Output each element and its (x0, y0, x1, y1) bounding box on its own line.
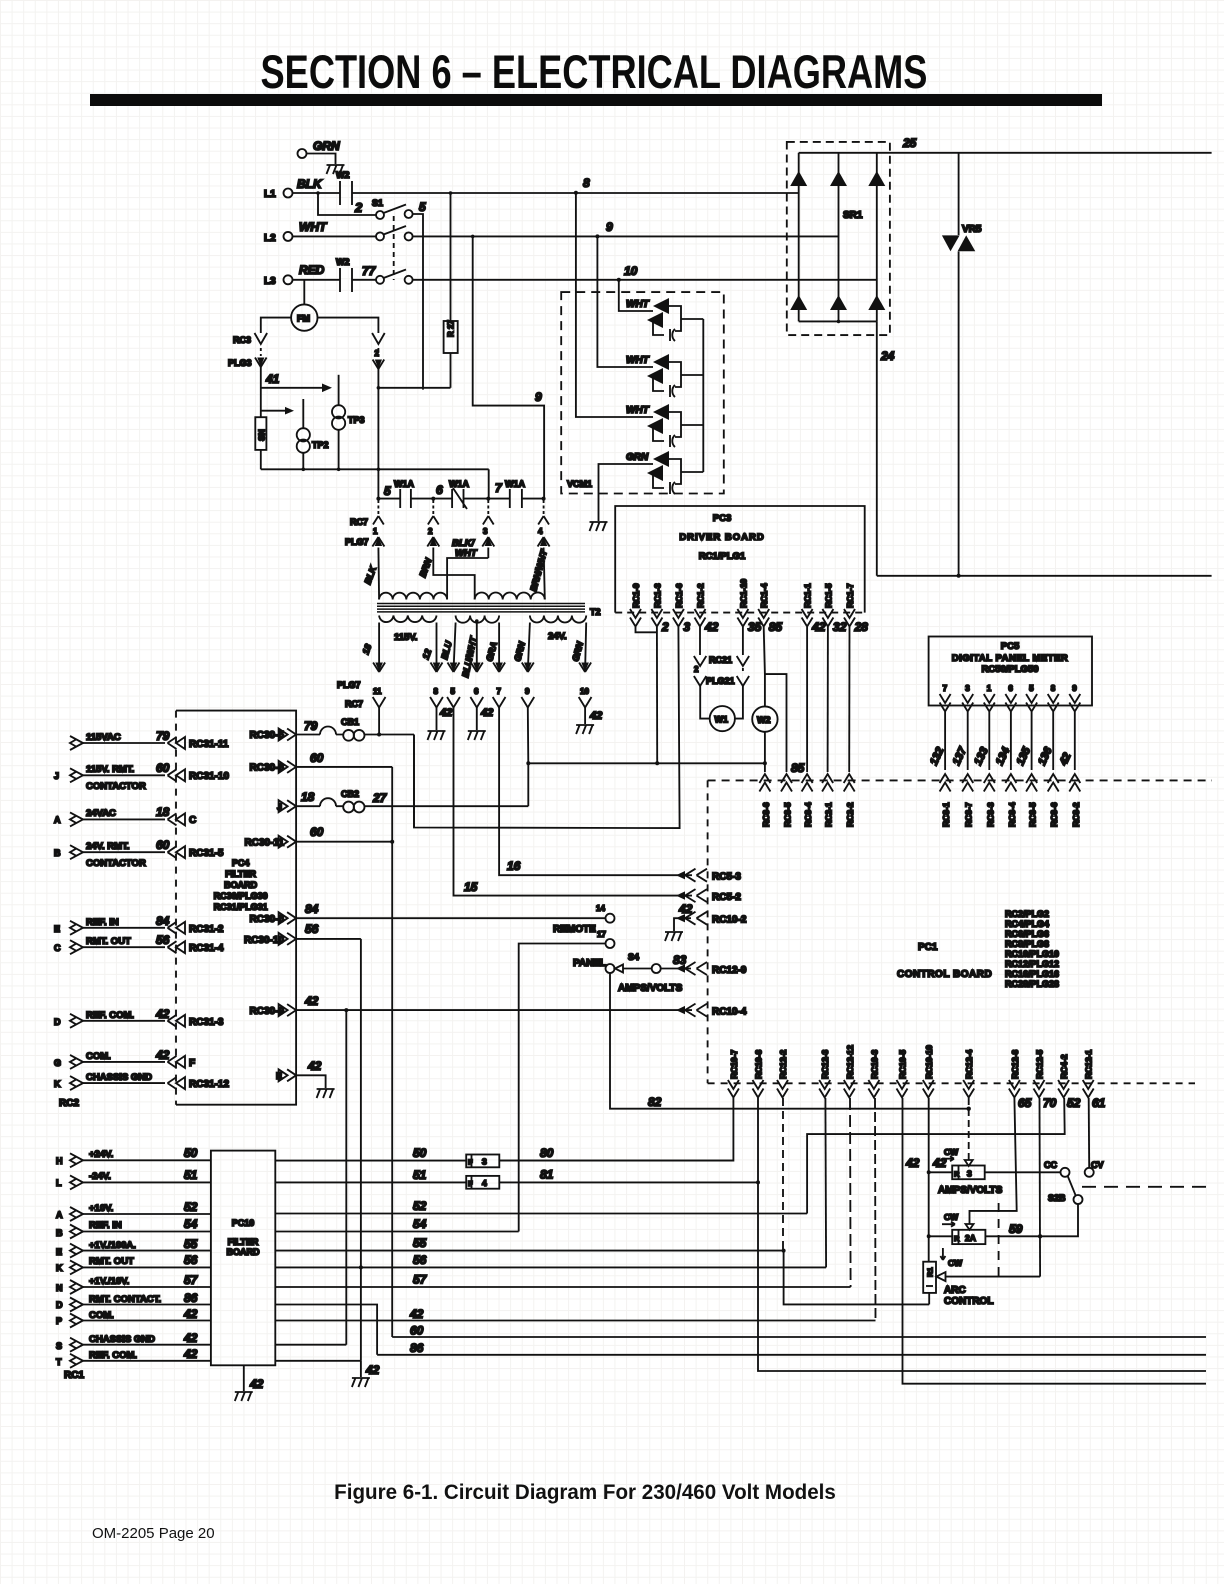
svg-text:2: 2 (428, 527, 433, 536)
wire to W1 right (735, 686, 743, 719)
wire thermal bus drop to node 7 (488, 469, 490, 498)
svg-text:CONTROL: CONTROL (944, 1296, 993, 1307)
svg-text:RMT. OUT: RMT. OUT (86, 936, 131, 947)
ground at E row (317, 1089, 335, 1098)
svg-text:12: 12 (420, 648, 433, 661)
svg-text:52: 52 (413, 1199, 427, 1213)
svg-text:5: 5 (1029, 684, 1034, 693)
svg-text:6: 6 (436, 483, 443, 497)
svg-text:42: 42 (678, 902, 693, 916)
svg-text:RC1-3: RC1-3 (652, 583, 662, 608)
svg-text:79: 79 (156, 729, 170, 743)
svg-text:PLG7: PLG7 (337, 680, 361, 690)
svg-text:P: P (56, 1316, 62, 1326)
svg-text:RC1-2: RC1-2 (696, 583, 706, 608)
svg-text:K: K (54, 1079, 61, 1089)
svg-text:11: 11 (373, 687, 382, 696)
wire 16: pin 7 to RC5-3 (499, 708, 692, 876)
svg-text:RC7: RC7 (345, 699, 363, 709)
svg-text:B: B (56, 1228, 63, 1238)
svg-text:3: 3 (965, 684, 970, 693)
board PC1 left dashed edge (707, 780, 709, 1083)
svg-text:RC31-3: RC31-3 (189, 1017, 224, 1028)
svg-text:133: 133 (972, 746, 991, 768)
svg-text:C: C (54, 943, 61, 953)
connector PLG21 chevron (694, 676, 706, 686)
svg-text:41: 41 (265, 372, 280, 386)
coil W1 (contactor coil) (710, 706, 735, 731)
connector pin RC8-5 (781, 774, 792, 792)
svg-text:RC31/PLG31: RC31/PLG31 (214, 902, 268, 912)
connector RC3 pin 1 arrow (255, 333, 268, 344)
secondary lead 7 (GRA) (498, 623, 500, 672)
svg-text:50: 50 (413, 1146, 427, 1160)
svg-text:TP3: TP3 (348, 415, 365, 425)
switch S2B blade (1068, 1176, 1076, 1196)
svg-text:RC12/PLG12: RC12/PLG12 (1005, 959, 1059, 969)
transformer T2 primary winding 2 (475, 592, 545, 599)
wire 9/2 node: pin 9 down, bus to W2 coil (528, 708, 765, 764)
svg-text:2: 2 (661, 620, 669, 634)
svg-text:18: 18 (301, 790, 315, 804)
wire GRN to SCR group 4 (599, 464, 649, 521)
figure caption (0, 1481, 1185, 1505)
junction L2 drop (471, 235, 475, 239)
svg-text:RC8-5: RC8-5 (783, 802, 793, 827)
svg-text:81: 81 (540, 1168, 554, 1182)
wire 15: pin 5 to RC5-2 (454, 708, 693, 896)
svg-text:RC50/PLG50: RC50/PLG50 (981, 664, 1038, 675)
svg-text:4: 4 (538, 527, 543, 536)
wire 9: S1 to SR1 column 2 (413, 235, 839, 237)
svg-text:5: 5 (419, 200, 426, 214)
svg-text:ARC: ARC (944, 1285, 966, 1296)
svg-text:7: 7 (495, 481, 503, 495)
svg-text:18: 18 (156, 805, 170, 819)
svg-text:RC10-8: RC10-8 (754, 1049, 764, 1079)
svg-text:REMOTE: REMOTE (553, 924, 596, 935)
wire RC10-3 drop to row 42 (874, 1098, 877, 1321)
page footer (92, 1525, 215, 1542)
wire R1 bottom return (928, 1293, 930, 1305)
svg-text:RC10-10: RC10-10 (924, 1045, 934, 1079)
connector RC21 chevron (694, 656, 706, 666)
breaker CB2 (320, 798, 336, 806)
svg-text:RC8-3: RC8-3 (985, 802, 995, 827)
svg-text:PC5: PC5 (1001, 641, 1020, 652)
RC7 pin 1 chevron (377, 500, 379, 514)
junction node 7 (486, 497, 490, 501)
transformer T2 secondary 24V winding (530, 616, 586, 623)
svg-text:42: 42 (1057, 751, 1073, 768)
junction node 6 (431, 497, 435, 501)
svg-text:1: 1 (373, 527, 378, 536)
svg-text:W2: W2 (757, 715, 771, 725)
svg-text:115V. RMT.: 115V. RMT. (86, 764, 134, 775)
svg-text:RC8-6: RC8-6 (1049, 802, 1059, 827)
svg-text:10: 10 (624, 264, 638, 278)
svg-text:RC1-10: RC1-10 (738, 578, 748, 608)
svg-text:COM.: COM. (86, 1051, 111, 1062)
wire 2 branch down to switch S1 (318, 193, 376, 215)
rectifier SR1 dashed outline (787, 142, 890, 335)
secondary lead 11 (378, 623, 380, 672)
wire 5 from S1 down to FM node (413, 214, 423, 390)
R2A wiper arrow (966, 1220, 974, 1230)
wire R3 left lead (929, 1171, 953, 1173)
wire 42 RC1-2 to PLG21 (699, 627, 701, 655)
svg-text:56: 56 (413, 1253, 427, 1267)
dashed output wire right (1082, 1186, 1212, 1188)
svg-text:RC31-12: RC31-12 (189, 1079, 229, 1090)
svg-text:W1A: W1A (505, 479, 526, 489)
thermal protector TP2 (302, 399, 304, 429)
svg-text:3: 3 (967, 1169, 972, 1179)
wire RC12-2 drop (55 junction, R1 return) (782, 1098, 784, 1251)
VCM1 dashed outline (561, 292, 724, 493)
svg-text:PC3: PC3 (713, 513, 731, 524)
wire row 51 to fuse F4 (275, 1181, 466, 1183)
svg-text:70: 70 (1043, 1096, 1057, 1110)
fuse F4 (466, 1176, 499, 1189)
svg-text:32: 32 (833, 620, 847, 634)
svg-text:S1: S1 (372, 198, 383, 208)
svg-text:42: 42 (905, 1156, 920, 1170)
potentiometer R2A (952, 1230, 985, 1244)
svg-text:115V.: 115V. (394, 632, 417, 643)
wire BRN/WHT primary lead (544, 548, 545, 600)
wire pin 8 to ground (436, 708, 438, 731)
connector RC21-1 chevron (737, 656, 749, 666)
svg-text:CONTACTOR: CONTACTOR (86, 858, 146, 869)
svg-text:+1V./100A.: +1V./100A. (89, 1240, 136, 1251)
svg-text:BRN/WHT: BRN/WHT (528, 547, 549, 592)
svg-text:86: 86 (410, 1341, 424, 1355)
svg-text:55: 55 (413, 1236, 427, 1250)
svg-text:RC12-8: RC12-8 (1010, 1049, 1020, 1079)
svg-text:RC16/PLG16: RC16/PLG16 (1005, 969, 1059, 979)
svg-text:RC10-5: RC10-5 (898, 1049, 908, 1079)
svg-text:9: 9 (535, 390, 542, 404)
wire L1 to fuse W2 (293, 192, 341, 194)
svg-text:42: 42 (183, 1331, 198, 1345)
board PC3 outline (615, 506, 865, 613)
connector PLG3 pin 2 arrow (373, 360, 385, 370)
svg-text:BOARD: BOARD (224, 880, 257, 890)
fuse W2 (line 8) (340, 181, 352, 205)
wire FM top to L3 line (303, 280, 305, 305)
svg-text:REF. COM.: REF. COM. (89, 1350, 137, 1361)
svg-text:137: 137 (951, 745, 970, 768)
svg-text:RC12-1: RC12-1 (1084, 1049, 1094, 1079)
svg-text:42: 42 (480, 707, 493, 719)
svg-text:RC31-4: RC31-4 (189, 943, 224, 954)
wire thermal bus horizontal (261, 468, 489, 470)
wire 27 riser joins node (527, 763, 529, 806)
secondary lead 8 (436, 623, 438, 672)
svg-text:134: 134 (994, 746, 1013, 768)
svg-text:CW: CW (944, 1212, 959, 1222)
svg-text:R: R (954, 1170, 960, 1179)
svg-text:C: C (189, 815, 196, 826)
svg-text:GRN: GRN (313, 139, 340, 153)
svg-text:CHASSIS GND: CHASSIS GND (86, 1072, 152, 1083)
svg-text:REF. IN: REF. IN (89, 1220, 122, 1231)
connector PLG3 pin 1 arrow (255, 358, 267, 368)
wire 84 to REMOTE terminal 14 (297, 917, 606, 919)
svg-text:CONTACTOR: CONTACTOR (86, 781, 146, 792)
svg-text:86: 86 (184, 1291, 198, 1305)
wire RC10-10 drop to pots (928, 1098, 930, 1262)
svg-text:42: 42 (155, 1007, 170, 1021)
svg-text:CONTROL BOARD: CONTROL BOARD (897, 969, 992, 980)
wire pin 10 to ground (584, 708, 586, 725)
S1 mechanical linkage (dashed) (393, 216, 395, 280)
svg-text:65: 65 (1018, 1096, 1032, 1110)
wire row 55 (+1V./100A.) (275, 1250, 783, 1252)
PLG7 pin 1 chevron (372, 537, 384, 547)
ground at REF. COM. (352, 1378, 370, 1387)
svg-text:W1: W1 (715, 715, 729, 725)
wire PLG3-1 down to SN (260, 367, 262, 417)
svg-text:5: 5 (384, 484, 391, 498)
svg-text:WHT: WHT (299, 220, 328, 234)
svg-text:60: 60 (410, 1324, 424, 1338)
wire 42 (COM.) (275, 1320, 875, 1322)
svg-text:-24V.: -24V. (89, 1171, 111, 1182)
svg-text:R1: R1 (926, 1267, 935, 1277)
connector pin RC8-6 (759, 774, 770, 792)
svg-text:5: 5 (451, 687, 456, 696)
svg-text:T: T (56, 1357, 62, 1367)
wire RC12-1 drop to CV (1088, 1098, 1091, 1168)
svg-text:RC2-2: RC2-2 (845, 802, 855, 827)
wire FM-2 down through node (377, 369, 379, 499)
svg-text:RC12-3: RC12-3 (820, 1049, 830, 1079)
svg-text:VCM1: VCM1 (567, 479, 592, 489)
wire row 52 (+10V) (275, 1213, 807, 1215)
wire 9 route: L2 drop, over, down to W1A right (473, 236, 544, 498)
svg-text:RED: RED (299, 263, 325, 277)
wire VCM1 common bus (702, 319, 704, 472)
SCR D1 (790, 171, 807, 186)
svg-text:RC10-7: RC10-7 (729, 1049, 739, 1079)
wire row 57 (+1V./10V.) (275, 1286, 850, 1288)
svg-text:RC5-2: RC5-2 (712, 892, 741, 903)
svg-text:60: 60 (156, 838, 170, 852)
svg-text:RC2-1: RC2-1 (824, 802, 834, 827)
svg-text:42: 42 (183, 1307, 198, 1321)
svg-text:DIGITAL PANEL METER: DIGITAL PANEL METER (952, 653, 1068, 664)
wire FM right lead (318, 318, 379, 333)
svg-text:RC5-3: RC5-3 (712, 872, 741, 883)
wire RC12-12 drop to row 57 (849, 1098, 852, 1287)
svg-text:D: D (54, 1017, 61, 1027)
svg-text:14: 14 (596, 904, 605, 913)
wire row REF. COM. to drop/ground (275, 1361, 361, 1377)
wire L1 drop to resistor R27 (450, 193, 452, 321)
svg-text:CB1: CB1 (341, 717, 359, 727)
connector PLG21-1 chevron (737, 676, 749, 686)
title underline bar (90, 94, 1102, 106)
svg-text:BLK: BLK (362, 563, 378, 585)
wire 60 output (392, 1336, 1206, 1338)
svg-text:RC4/PLG4: RC4/PLG4 (1005, 919, 1049, 929)
wire tap 10 to SCR group 1 (619, 280, 648, 311)
svg-text:28: 28 (854, 620, 869, 634)
connector RC5-2 chevron (685, 889, 707, 902)
svg-text:RC12-12: RC12-12 (845, 1045, 855, 1079)
svg-text:6: 6 (1008, 684, 1013, 693)
potentiometer R3 (AMPS/VOLTS) (952, 1166, 985, 1180)
svg-text:42: 42 (365, 1363, 380, 1377)
input row 115VAC (70, 736, 83, 750)
svg-text:WHT: WHT (626, 355, 650, 366)
svg-text:E: E (54, 924, 60, 934)
ground at pin 6 (468, 731, 486, 740)
svg-text:9: 9 (1072, 684, 1077, 693)
svg-text:17: 17 (597, 930, 606, 939)
PLG7 pin 4 chevron (538, 537, 550, 547)
secondary lead 9 (GRN) (528, 623, 530, 672)
wire BRN primary lead (433, 548, 474, 600)
section title (123, 44, 1065, 99)
svg-text:RC8/PLG8: RC8/PLG8 (1005, 939, 1049, 949)
svg-text:16: 16 (507, 859, 521, 873)
junction pin11 feed (377, 733, 381, 737)
PLG7 pin 3 chevron (482, 537, 494, 547)
wire 32 RC1-5 to RC2-1 (827, 627, 829, 772)
svg-text:GRN: GRN (512, 640, 527, 662)
svg-text:8: 8 (583, 176, 590, 190)
wire RC10-8 long drop (81 junction) (758, 1098, 1206, 1371)
junction on L1 at branch 2 (316, 191, 320, 195)
svg-text:RC31-10: RC31-10 (189, 771, 229, 782)
node GRN terminal circle (298, 149, 307, 158)
svg-text:BLK: BLK (297, 177, 323, 191)
svg-text:59: 59 (1009, 1222, 1023, 1236)
svg-text:WHT: WHT (626, 405, 650, 416)
svg-text:SR1: SR1 (843, 210, 863, 221)
svg-text:42: 42 (249, 1377, 264, 1391)
svg-text:27: 27 (372, 791, 388, 805)
svg-text:PC1: PC1 (918, 942, 938, 953)
svg-text:BRN: BRN (417, 556, 433, 578)
svg-text:RC1-5: RC1-5 (823, 583, 833, 608)
svg-text:85: 85 (769, 620, 783, 634)
svg-text:W2: W2 (336, 257, 350, 267)
svg-text:A: A (54, 815, 61, 825)
wire VR5 to 24 bus (958, 252, 960, 576)
SR1 bottom rail (799, 320, 877, 322)
svg-text:F: F (189, 1058, 195, 1069)
svg-text:42: 42 (589, 710, 602, 722)
svg-text:G: G (54, 1058, 61, 1068)
svg-text:2A: 2A (965, 1233, 976, 1243)
svg-text:54: 54 (413, 1217, 427, 1231)
svg-text:42: 42 (409, 1307, 424, 1321)
secondary lead 6 (BLU/WHT centre tap) (476, 623, 478, 672)
wire 42 long drop (345, 1010, 347, 1345)
board PC5 outline (929, 637, 1092, 706)
svg-text:136: 136 (1036, 745, 1055, 768)
svg-text:F: F (468, 1179, 473, 1188)
svg-text:RC30/PLG30: RC30/PLG30 (214, 891, 268, 901)
svg-text:RC4-2: RC4-2 (1059, 1054, 1069, 1079)
svg-text:RC12-9: RC12-9 (712, 965, 747, 976)
svg-text:FILTER: FILTER (228, 1237, 259, 1247)
svg-text:W1A: W1A (449, 479, 470, 489)
svg-text:RC6/PLG6: RC6/PLG6 (1005, 929, 1049, 939)
fuse F3 (466, 1155, 499, 1168)
svg-text:56: 56 (305, 922, 319, 936)
terminal 17 (606, 939, 615, 948)
svg-text:T2: T2 (590, 607, 601, 617)
connector RC10-2 chevron and ground (685, 912, 707, 925)
junction wire 9 tap (595, 234, 599, 238)
svg-text:RC10-4: RC10-4 (712, 1007, 747, 1018)
svg-text:B: B (54, 848, 61, 858)
wire pin 11 to CB1 (378, 708, 380, 735)
wire 8: L1 fuse to SR1 column 1 (352, 192, 799, 194)
svg-text:24V.: 24V. (548, 631, 567, 642)
svg-text:PC4: PC4 (232, 858, 250, 868)
svg-text:3: 3 (483, 527, 488, 536)
svg-text:RC1-4: RC1-4 (759, 583, 769, 608)
ground at pin 8 (428, 731, 446, 740)
svg-text:84: 84 (156, 914, 170, 928)
svg-text:RC21: RC21 (709, 655, 732, 665)
RC7 pin 2 chevron (432, 500, 434, 514)
connector RC10-4 chevron (685, 1004, 707, 1017)
svg-text:RC31-5: RC31-5 (189, 848, 224, 859)
svg-text:3: 3 (482, 1157, 487, 1167)
svg-text:RC8-1: RC8-1 (941, 802, 951, 827)
wire RC1-9 jumper to RC1-3 (636, 627, 657, 632)
wire row CHASSIS GND to drop (275, 1344, 346, 1346)
wire R27 bottom (450, 353, 452, 388)
svg-text:CW: CW (948, 1258, 963, 1268)
ground (earth) symbol at GRN (327, 165, 345, 174)
svg-text:42: 42 (183, 1347, 198, 1361)
svg-text:4: 4 (482, 1178, 487, 1188)
svg-text:RC12-4: RC12-4 (964, 1049, 974, 1079)
wire pin 6 to ground (476, 708, 478, 731)
svg-text:DRIVER BOARD: DRIVER BOARD (679, 532, 764, 543)
board PC10 outline (211, 1151, 275, 1366)
svg-text:9: 9 (525, 687, 530, 696)
wire 77 to S1 pole 3 (352, 279, 376, 281)
svg-text:BOARD: BOARD (227, 1247, 260, 1257)
svg-text:PANEL: PANEL (573, 958, 606, 969)
wire 56 long drop (360, 939, 362, 1361)
junction node 9/pin4 (542, 497, 546, 501)
switch S1 pole 2 (376, 232, 384, 240)
svg-text:REF. COM.: REF. COM. (86, 1010, 134, 1021)
ground at PC10 (235, 1392, 253, 1401)
svg-text:RC10/PLG10: RC10/PLG10 (1005, 949, 1059, 959)
connector pin RC2-1 (822, 774, 833, 792)
svg-text:D: D (56, 1300, 63, 1310)
svg-text:CHASSIS GND: CHASSIS GND (89, 1334, 155, 1345)
terminal 14 (REMOTE) (606, 914, 615, 923)
svg-text:N: N (56, 1283, 63, 1293)
svg-text:W2: W2 (336, 170, 350, 180)
svg-text:2: 2 (354, 200, 363, 215)
svg-text:RC10-2: RC10-2 (712, 915, 747, 926)
svg-text:10: 10 (580, 687, 589, 696)
svg-text:RC1-1: RC1-1 (803, 583, 813, 608)
